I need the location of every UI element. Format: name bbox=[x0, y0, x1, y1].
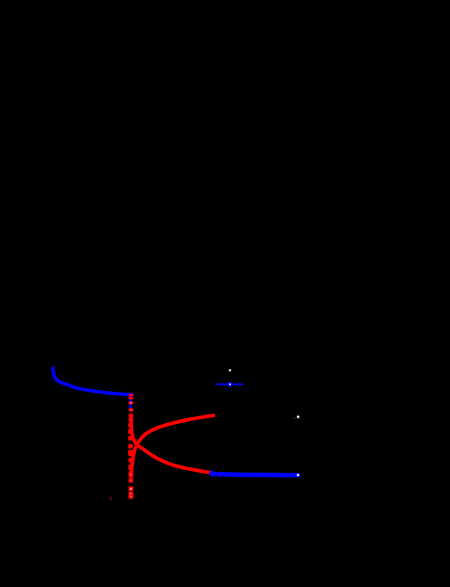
legend entry 2 diamond marker bbox=[227, 381, 234, 388]
legend entry 1: white-faced point marker (line invisible) bbox=[229, 369, 232, 371]
blue diamond marker at start of flat blue line bbox=[209, 470, 216, 477]
faint grey smudge left of that marker bbox=[293, 418, 296, 419]
red rotated label glyph column along steep section (top group) bbox=[129, 394, 134, 422]
red glyph bulges over the steep strand (middle group) bbox=[128, 423, 133, 470]
glyph holes (top group) bbox=[130, 402, 132, 404]
legend entry 2: blue dashed line sample bbox=[217, 383, 243, 385]
white-centred marker at right end of blue line bbox=[297, 474, 300, 477]
curve 1 blue steep drop segment bbox=[129, 394, 132, 408]
curve 1 blue descending branch (before equivalence) bbox=[53, 368, 133, 395]
curve 1 end: thick blue flat line after equivalence bbox=[211, 474, 300, 475]
glyph holes (bottom group) bbox=[130, 474, 132, 476]
red glyph column bottom group bbox=[129, 472, 134, 499]
curve 2 red branch (reverse titration) from upper right down across bbox=[131, 415, 215, 478]
faint dark red smudge left of column bottom bbox=[110, 497, 112, 501]
legend diamond white centre bbox=[229, 383, 231, 385]
white-centred marker on invisible black curve (right) bbox=[297, 415, 300, 418]
curve 1 red steep-to-flat branch (after colour change) bbox=[131, 414, 211, 473]
